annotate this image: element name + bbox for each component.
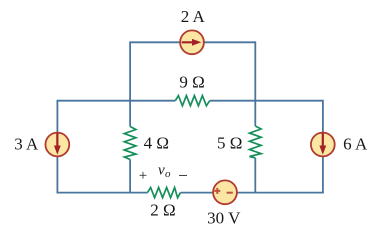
svg-text:2 Ω: 2 Ω [150,201,175,220]
wire bottom left segment [57,192,148,194]
svg-text:v: v [158,163,165,179]
wire right vertical lower (x=255, 5ohm to bottom) [254,158,256,193]
voltage source V1 30V circle [213,180,237,204]
wire 9ohm row right segment [210,100,323,102]
current source I1 2A arrow (right) [182,39,202,46]
svg-text:o: o [165,168,171,180]
svg-text:2 A: 2 A [181,7,206,26]
voltage source V1 minus sign [227,192,233,194]
resistor R3 4ohm zigzag [124,127,136,160]
wire left rail (x=57.4) [56,100,58,193]
current source I3 6A arrow (down) [319,133,326,155]
voltage source V1 plus sign [214,188,220,194]
svg-text:9 Ω: 9 Ω [179,73,204,92]
wire 9ohm row left segment [57,100,175,102]
svg-text:3 A: 3 A [14,134,39,153]
svg-text:6 A: 6 A [343,134,368,153]
resistor R1 9ohm zigzag [175,96,209,106]
wire top horizontal (2A branch) [130,41,255,43]
wire bottom right segment [181,192,324,194]
wire left vertical lower (x=130, 4ohm to bottom) [129,160,131,193]
svg-text:+: + [139,168,147,184]
wire right rail (x=322.9) [322,100,324,193]
current source I1 2A circle [180,30,204,54]
wire left vertical upper (x=130, top corner to 4ohm) [129,41,131,126]
svg-text:5 Ω: 5 Ω [217,134,242,153]
svg-text:−: − [178,166,188,185]
current source I2 3A arrow (down) [54,133,61,155]
wire right vertical upper (x=255, top corner to 5ohm) [254,41,256,126]
svg-text:30 V: 30 V [207,209,241,228]
resistor R4 5ohm zigzag [250,126,262,158]
resistor R2 2ohm zigzag [148,188,181,198]
svg-text:4 Ω: 4 Ω [144,133,169,152]
current source I3 6A circle [311,133,335,157]
current source I2 3A circle [45,133,69,157]
